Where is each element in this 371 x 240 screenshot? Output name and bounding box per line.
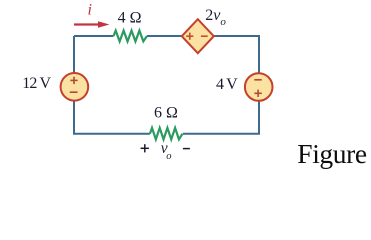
dependent source 2vo (diamond) <box>182 19 214 53</box>
svg-text:4 V: 4 V <box>216 76 238 93</box>
wire: bottom-left segment (R 6ohm to left corner) <box>74 101 150 134</box>
resistor 6 ohm (zigzag) <box>150 128 183 139</box>
svg-text:12 V: 12 V <box>22 75 51 92</box>
wire: right segment (4V source to bottom-right corner) <box>183 101 259 134</box>
wire: top-middle segment (R 4ohm to dependent source) <box>147 35 182 37</box>
svg-text:6 Ω: 6 Ω <box>154 104 178 121</box>
wire: top-left segment (node a to R 4ohm) <box>74 35 114 37</box>
wire: top-right segment (dependent source to right corner) <box>214 36 259 74</box>
current arrow i <box>74 21 110 27</box>
svg-text:2vo: 2vo <box>205 7 226 28</box>
voltage source 4V (circle) <box>245 73 273 101</box>
polarity label + vo - (for vo across 6 ohm) <box>141 140 190 162</box>
voltage source 12V (circle) <box>61 73 89 101</box>
svg-text:o: o <box>166 151 171 162</box>
svg-text:4 Ω: 4 Ω <box>118 10 142 27</box>
wire: left segment (12V source to top-left corner) <box>73 36 75 74</box>
svg-text:i: i <box>88 2 92 19</box>
svg-text:Figure: Figure <box>297 138 367 169</box>
resistor 4 ohm (zigzag) <box>114 31 148 42</box>
